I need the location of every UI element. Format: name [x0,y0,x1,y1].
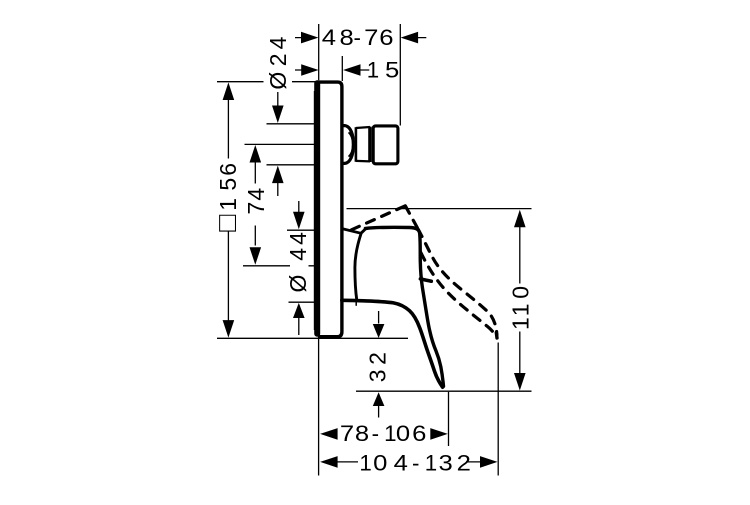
svg-text:Ø: Ø [265,72,291,90]
svg-text:1: 1 [508,317,534,330]
svg-text:8: 8 [355,421,369,446]
svg-text:-: - [353,25,360,50]
svg-text:4: 4 [394,451,408,476]
svg-text:3: 3 [438,451,452,476]
svg-text:2: 2 [265,54,291,67]
svg-text:-: - [372,421,379,446]
svg-text:7: 7 [243,202,269,215]
svg-text:4: 4 [265,36,291,49]
svg-text:1: 1 [367,58,379,83]
svg-text:4: 4 [243,188,269,201]
svg-text:4: 4 [285,232,311,245]
svg-text:8: 8 [339,26,353,51]
svg-text:6: 6 [215,163,241,176]
svg-text:6: 6 [379,26,393,51]
svg-text:1: 1 [508,304,534,317]
svg-text:2: 2 [365,352,391,365]
svg-text:3: 3 [365,369,391,382]
svg-text:7: 7 [340,421,354,446]
svg-text:4: 4 [285,248,311,261]
svg-text:0: 0 [373,451,387,476]
svg-text:1: 1 [215,198,241,211]
svg-text:2: 2 [457,451,471,476]
svg-text:□: □ [211,215,242,232]
svg-text:1: 1 [384,421,396,446]
svg-text:6: 6 [412,421,426,446]
svg-text:1: 1 [425,451,437,476]
svg-text:4: 4 [322,26,336,51]
svg-text:5: 5 [385,58,399,83]
svg-text:5: 5 [215,178,241,191]
svg-text:7: 7 [364,26,378,51]
svg-text:0: 0 [396,421,410,446]
svg-text:Ø: Ø [285,274,311,292]
svg-text:0: 0 [508,286,534,299]
svg-text:1: 1 [359,451,371,476]
svg-text:-: - [412,451,419,476]
